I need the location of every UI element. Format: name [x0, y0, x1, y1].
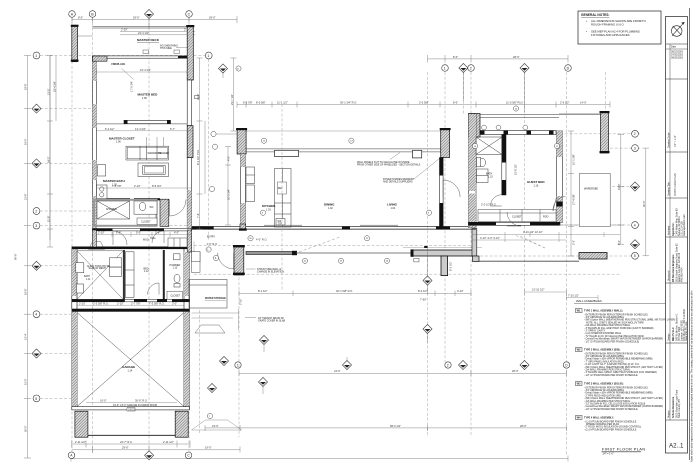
svg-text:8'-1 1/2" PLN: 8'-1 1/2" PLN — [196, 150, 200, 165]
svg-text:2: 2 — [447, 363, 449, 367]
svg-text:Date: Date — [671, 46, 677, 49]
svg-text:10'-1 3/8": 10'-1 3/8" — [572, 154, 576, 165]
svg-text:18'-6": 18'-6" — [24, 83, 28, 90]
svg-text:6'-0": 6'-0" — [116, 231, 121, 235]
svg-text:4'-0": 4'-0" — [174, 231, 179, 235]
north window band — [246, 149, 441, 152]
tag circle near grid1 — [236, 66, 241, 71]
grid bubbles top: A B diamond C — [69, 11, 193, 18]
mud cubbies — [168, 238, 187, 247]
south terrace wall west of entry — [246, 251, 411, 255]
structural diamond top — [144, 9, 153, 28]
svg-text:DRAWER: DRAWER — [159, 152, 170, 155]
guest wing bottom dim lines — [472, 232, 620, 242]
wall type W4 note — [576, 416, 642, 432]
drawing scale section — [666, 79, 688, 152]
svg-text:MASTER BATH: MASTER BATH — [103, 179, 125, 183]
garage floor X — [77, 313, 184, 407]
dashed roofline diagonal — [520, 236, 545, 248]
west master wing inner vertical dims — [47, 56, 56, 248]
right vertical dim lines — [618, 135, 650, 256]
guest shower — [476, 137, 502, 155]
svg-text:•: • — [586, 19, 587, 23]
svg-text:3'-0": 3'-0" — [172, 302, 177, 306]
garage north wall — [72, 309, 190, 312]
window tag boxes on north wall — [143, 50, 180, 53]
bed door arc — [148, 283, 160, 295]
garage east wall — [184, 247, 190, 409]
window seat box kitchen — [275, 150, 299, 156]
right grid bubbles column — [632, 130, 639, 259]
wardrobe box — [579, 174, 610, 227]
svg-text:W4: W4 — [577, 416, 581, 420]
svg-text:Drawing Scale: Drawing Scale — [667, 132, 670, 148]
structure wall pier entry — [233, 245, 245, 275]
roof valley dashed diagonal — [299, 237, 340, 252]
diamond leader tick on porch wall — [424, 246, 427, 248]
closet island dresser — [138, 163, 169, 177]
left structural diamonds — [32, 104, 41, 358]
svg-text:CLOSET: CLOSET — [141, 221, 151, 224]
svg-text:www.MEI-YU.com: www.MEI-YU.com — [685, 322, 688, 341]
svg-text:FIXTURES AND APPLIANCES: FIXTURES AND APPLIANCES — [591, 33, 630, 37]
svg-text:21'-0": 21'-0" — [196, 93, 200, 100]
svg-text:2'-0 1/2" R.O.: 2'-0 1/2" R.O. — [481, 203, 497, 207]
master wc closet — [137, 218, 157, 225]
svg-text:MASTER BED: MASTER BED — [138, 93, 159, 97]
svg-text:CLOSET: CLOSET — [512, 216, 522, 219]
entry hall east wall — [440, 158, 444, 230]
title block outer frame — [666, 8, 690, 460]
master bath wall — [107, 198, 161, 200]
top-right structural diamonds — [459, 63, 529, 112]
svg-text:8'-0 1/2": 8'-0 1/2" — [418, 289, 428, 293]
closet right — [167, 291, 182, 299]
living south wall with sliders — [192, 224, 476, 231]
roof overhang line north — [237, 130, 450, 132]
svg-text:8'-0": 8'-0" — [453, 100, 458, 104]
master wing east wall — [187, 80, 193, 230]
architect block: Agentis Inc. — [666, 198, 688, 237]
svg-text:2'-7 7/8": 2'-7 7/8" — [131, 302, 141, 306]
closet rod section lines — [147, 137, 164, 146]
svg-text:1: 1 — [207, 54, 209, 58]
guest vanity — [477, 169, 489, 183]
mudroom exterior steps — [89, 242, 105, 250]
guest south wall — [469, 222, 561, 225]
bath 1.11 fixtures — [76, 263, 84, 293]
deck edge lines east — [559, 114, 621, 226]
left grid bubbles — [33, 52, 40, 402]
svg-text:TYPE 4 WALL ASSEMBLY:: TYPE 4 WALL ASSEMBLY: — [584, 417, 614, 420]
svg-text:TYPE 1 WALL ASSEMBLY (WALL):: TYPE 1 WALL ASSEMBLY (WALL): — [584, 310, 623, 313]
svg-text:7'-5 7/8": 7'-5 7/8" — [112, 184, 122, 188]
svg-text:19'-0": 19'-0" — [24, 138, 28, 145]
svg-text:Structural: Structural — [667, 270, 670, 281]
svg-text:1.12: 1.12 — [144, 270, 149, 273]
wall type W3 note — [576, 382, 664, 411]
mudroom south wall of master wing — [93, 229, 192, 231]
svg-text:21'-10 1/2": 21'-10 1/2" — [532, 288, 544, 292]
svg-text:28'-6": 28'-6" — [520, 424, 527, 428]
svg-text:W1: W1 — [577, 309, 581, 313]
master bath dim row — [96, 187, 191, 189]
wall assemblies header — [574, 299, 665, 304]
svg-text:Project: Project — [667, 410, 670, 418]
top-left dimension string — [72, 16, 237, 35]
upper mid dimension string y=104 — [237, 102, 610, 108]
window tag circles — [248, 106, 560, 241]
svg-text:40'-0": 40'-0" — [642, 200, 646, 207]
hall door arc — [443, 180, 460, 197]
svg-text:GENERAL NOTES:: GENERAL NOTES: — [581, 13, 609, 17]
svg-text:16001: 16001 — [128, 408, 135, 411]
tag circle near living pier — [211, 131, 216, 136]
hall east wall continuation — [187, 230, 192, 252]
dim rows between — [77, 304, 184, 306]
NW corner L pier — [93, 56, 108, 61]
mudroom door arcs — [113, 231, 164, 245]
svg-text:24'-4 1/2": 24'-4 1/2" — [138, 31, 149, 35]
svg-text:15'-0": 15'-0" — [24, 378, 28, 385]
guest bath door arc — [491, 195, 502, 206]
bottom structural diamond — [145, 451, 154, 460]
svg-text:7'-10 1/2": 7'-10 1/2" — [568, 293, 579, 297]
general notes box — [578, 11, 661, 44]
svg-text:2: 2 — [634, 132, 636, 136]
svg-text:GRATE COVER IN SLAB: GRATE COVER IN SLAB — [258, 319, 285, 322]
wall tag box on south wall — [276, 219, 285, 226]
svg-text:2'-0 5/8": 2'-0 5/8" — [419, 100, 429, 104]
kitchen west wall lower — [241, 154, 246, 229]
patio step lines SE of garage — [192, 242, 242, 431]
entry porch pier going south — [441, 256, 448, 276]
guest west wall — [469, 114, 477, 228]
svg-text:17'-0 3/4": 17'-0 3/4" — [130, 81, 134, 92]
guest toilet — [477, 157, 486, 167]
project block: Schone Residence — [666, 343, 688, 420]
wall master deck east pier — [186, 25, 194, 80]
svg-text:MUD: MUD — [143, 238, 149, 241]
svg-text:5: 5 — [35, 397, 37, 401]
east master wing vertical dims — [197, 58, 206, 229]
svg-text:4'-0" R.O.: 4'-0" R.O. — [207, 242, 218, 246]
svg-text:2'-10": 2'-10" — [239, 298, 243, 305]
svg-text:FIRST FLOOR PLAN: FIRST FLOOR PLAN — [674, 173, 677, 196]
svg-text:2: 2 — [470, 66, 472, 70]
svg-text:18'-4 3/4": 18'-4 3/4" — [52, 81, 56, 92]
svg-text:11'-5 5/8" PLN: 11'-5 5/8" PLN — [506, 100, 523, 104]
entry porch wall — [411, 249, 475, 256]
svg-text:A2..1: A2..1 — [669, 443, 684, 450]
svg-text:CHANGE IN ELEVATION: CHANGE IN ELEVATION — [257, 270, 284, 273]
svg-text:FIREPLACE: FIREPLACE — [112, 63, 126, 66]
patio mid bubble row y=365 — [239, 371, 567, 377]
svg-text:1.16: 1.16 — [534, 184, 539, 187]
svg-text:2'-3 5/8" R.O.: 2'-3 5/8" R.O. — [93, 302, 109, 306]
guest NW hatch pier — [469, 114, 481, 138]
porch roof edge line — [403, 247, 482, 249]
bottom dimension strings — [71, 425, 568, 462]
svg-text:44'-0": 44'-0" — [334, 369, 341, 373]
svg-text:- 1/2" GYPSUM BOARD PER FINISH: - 1/2" GYPSUM BOARD PER FINISH SCHEDULE — [584, 408, 638, 411]
svg-text:27'-4 5/8": 27'-4 5/8" — [572, 194, 576, 205]
svg-text:7'-3 5/8" R.O.: 7'-3 5/8" R.O. — [149, 302, 165, 306]
svg-text:- 1/2" GYPSUM BOARD PER FINISH: - 1/2" GYPSUM BOARD PER FINISH (SCHEDULE… — [584, 340, 639, 343]
svg-text:1.04: 1.04 — [391, 207, 396, 210]
svg-text:1.03: 1.03 — [266, 208, 271, 211]
svg-text:90'-6": 90'-6" — [14, 253, 18, 260]
svg-text:AND DETAILS SUPPLIERS: AND DETAILS SUPPLIERS — [383, 180, 413, 183]
hatched terrace bar east — [579, 253, 607, 260]
svg-text:8'-0": 8'-0" — [78, 16, 83, 20]
svg-text:19'-0": 19'-0" — [212, 424, 219, 428]
svg-text:3'-10 1/2" 12'-10": 3'-10 1/2" 12'-10" — [523, 230, 543, 234]
kitchen dashed grid — [281, 104, 283, 290]
svg-text:24'-7" R.O.: 24'-7" R.O. — [120, 440, 133, 444]
svg-text:29'-6": 29'-6" — [133, 16, 140, 20]
master bed inner dim — [96, 70, 187, 75]
svg-text:KITCHEN: KITCHEN — [262, 204, 275, 208]
svg-text:Drawing Title: Drawing Title — [667, 182, 670, 196]
svg-text:2'-11 1/2": 2'-11 1/2" — [163, 440, 174, 444]
hall dim row — [96, 232, 191, 237]
svg-text:REF: REF — [278, 187, 283, 190]
garage block north wall — [72, 247, 190, 250]
roof dashed diagonal SE — [516, 236, 545, 249]
svg-text:15'-8 1/2": 15'-8 1/2" — [514, 164, 518, 175]
guest west wall south continuation — [472, 229, 477, 257]
master deck north window wall — [93, 27, 188, 29]
svg-text:6'-2 1/2": 6'-2 1/2" — [449, 261, 453, 271]
svg-text:ENTRY: ENTRY — [207, 236, 215, 239]
sliding door leafs — [264, 224, 398, 226]
shower master — [97, 201, 130, 219]
svg-text:W2: W2 — [577, 348, 581, 352]
svg-text:WC: WC — [150, 206, 154, 209]
svg-text:21'-0": 21'-0" — [46, 88, 50, 95]
svg-text:1.13: 1.13 — [173, 267, 178, 270]
svg-text:GUEST BED: GUEST BED — [527, 180, 545, 184]
svg-text:14'-0": 14'-0" — [580, 100, 587, 104]
svg-text:4: 4 — [634, 223, 636, 227]
svg-text:1.06: 1.06 — [116, 141, 121, 144]
interior wall bed/powder — [163, 250, 165, 301]
scattered structural diamonds patio — [207, 276, 432, 394]
north arrow compass logo — [671, 22, 684, 36]
svg-text:11'-1 1/2": 11'-1 1/2" — [277, 100, 288, 104]
vertical dim east of master wing — [231, 58, 237, 131]
grid 1 right-end bubble — [205, 52, 212, 59]
rooms south wall — [72, 299, 190, 302]
svg-text:2'-10": 2'-10" — [117, 302, 124, 306]
svg-text:4'-0" R.O.: 4'-0" R.O. — [256, 238, 267, 242]
svg-text:1.11: 1.11 — [86, 278, 91, 281]
patio dim line y=293 — [239, 291, 471, 297]
svg-text:ROD: ROD — [543, 216, 549, 219]
svg-text:28'-6": 28'-6" — [512, 369, 519, 373]
svg-text:1.15: 1.15 — [488, 175, 493, 178]
svg-text:30'-1 3/4" R.O.: 30'-1 3/4" R.O. — [340, 100, 357, 104]
right structural diamonds — [630, 182, 639, 249]
left dimension strings — [24, 56, 50, 459]
master bed north wall — [93, 56, 188, 58]
svg-text:23'-7 1/2": 23'-7 1/2" — [230, 94, 234, 105]
svg-text:TYPE 2 WALL ASSEMBLY (SIB):: TYPE 2 WALL ASSEMBLY (SIB): — [584, 349, 620, 352]
svg-text:1/4" = 1'-0": 1/4" = 1'-0" — [603, 454, 614, 456]
svg-text:2'-10": 2'-10" — [134, 184, 141, 188]
master bath tiled border — [94, 200, 157, 226]
svg-text:3: 3 — [634, 147, 636, 151]
svg-text:CLOSET: CLOSET — [171, 294, 181, 297]
svg-text:2'-10": 2'-10" — [79, 302, 86, 306]
svg-text:8'-0 5/8": 8'-0 5/8" — [256, 100, 266, 104]
svg-text:16'-0" x 8'-0" GARAGE IN-SWING: 16'-0" x 8'-0" GARAGE IN-SWING DOOR — [113, 404, 157, 407]
gallery tag circles — [212, 144, 217, 149]
hall west wall continuation — [93, 230, 97, 247]
svg-text:4: 4 — [35, 313, 37, 317]
svg-text:THIS SIDE: THIS SIDE — [160, 47, 172, 50]
NE deck pier — [600, 111, 610, 153]
svg-text:6'-2 1/2": 6'-2 1/2" — [105, 127, 115, 131]
NW corner pier living — [236, 128, 247, 154]
svg-text:1.08: 1.08 — [142, 97, 147, 100]
terrace wall step at guest wing — [473, 256, 580, 262]
patio tag circles — [207, 258, 389, 418]
svg-text:09/25/2015: 09/25/2015 — [671, 57, 684, 60]
master wing west wall — [93, 56, 97, 230]
svg-text:19'-0": 19'-0" — [205, 446, 212, 450]
svg-text:480.983.4424: 480.983.4424 — [681, 267, 684, 282]
svg-text:8'-0": 8'-0" — [453, 55, 458, 59]
svg-text:- (1) GYPSUM BOARD PER FINISH: - (1) GYPSUM BOARD PER FINISH SCHEDULE — [584, 428, 637, 431]
entry cabinet box — [413, 150, 422, 158]
svg-text:Notes shall not be reproduced: Notes shall not be reproduced by any oth… — [690, 290, 693, 462]
svg-text:1.14: 1.14 — [128, 370, 133, 373]
svg-text:13'-4": 13'-4" — [24, 333, 28, 340]
bath door arc — [170, 200, 187, 217]
svg-text:1/4" = 1'-0": 1/4" = 1'-0" — [674, 135, 677, 147]
svg-text:SHOWER: SHOWER — [106, 208, 117, 211]
svg-text:ROUGH FRAMING U.N.O: ROUGH FRAMING U.N.O — [591, 23, 624, 27]
svg-text:2'-11 1/2": 2'-11 1/2" — [75, 440, 86, 444]
drawing title section — [666, 152, 688, 198]
master vanity sinks — [97, 185, 108, 199]
wall grid-A privacy pier — [71, 25, 93, 62]
svg-text:2: 2 — [35, 209, 37, 213]
wall type W1 note — [576, 309, 676, 344]
svg-text:D: D — [567, 66, 570, 70]
diamond near grid1 east — [218, 64, 227, 78]
NE corner pier entry — [440, 128, 451, 158]
kitchen island galley — [275, 169, 292, 228]
svg-text:21'-6": 21'-6" — [24, 193, 28, 200]
svg-text:Architect: Architect — [667, 225, 670, 235]
svg-text:28'-0": 28'-0" — [513, 55, 520, 59]
clerestory tag circles — [482, 125, 528, 130]
svg-text:1: 1 — [237, 363, 239, 367]
svg-text:4'-10" 4'-0" 3'-10": 4'-10" 4'-0" 3'-10" — [480, 236, 500, 240]
svg-text:30'-6" R.O.: 30'-6" R.O. — [135, 398, 148, 402]
washer dryer — [110, 258, 122, 277]
wall type W2 note — [576, 348, 664, 377]
svg-text:MASTER DECK: MASTER DECK — [137, 38, 160, 42]
svg-text:Design: Design — [667, 333, 670, 341]
cabinet strip — [125, 252, 134, 297]
structural block: RS Structural Engineers — [666, 237, 688, 283]
svg-text:2'-10": 2'-10" — [121, 28, 128, 32]
bath 1.11 tile X — [77, 251, 123, 299]
garage west wall — [72, 247, 77, 409]
deck vertical dim — [568, 131, 574, 256]
guest bath wall — [502, 135, 506, 196]
extra dashed verticals patio — [238, 263, 240, 437]
garage south wall + door — [72, 407, 190, 438]
svg-text:5: 5 — [634, 254, 636, 258]
svg-text:SLAB W/ MECH: SLAB W/ MECH — [89, 267, 107, 270]
svg-text:29'-6": 29'-6" — [122, 446, 129, 450]
svg-text:8'-5 3/4": 8'-5 3/4" — [152, 184, 162, 188]
svg-text:16'-6": 16'-6" — [24, 288, 28, 295]
guest clerestory north edge — [468, 115, 603, 118]
svg-text:C: C — [188, 12, 191, 16]
svg-text:20'-0": 20'-0" — [24, 425, 28, 432]
svg-text:6'-3 7/8": 6'-3 7/8" — [243, 100, 253, 104]
dashed structural grid lines horizontal — [40, 56, 640, 399]
svg-text:1: 1 — [35, 54, 37, 58]
svg-text:W3: W3 — [577, 382, 581, 386]
svg-text:16'-4 3/4": 16'-4 3/4" — [140, 68, 151, 72]
guest closet row — [478, 210, 556, 222]
svg-text:14'-4 3/4": 14'-4 3/4" — [135, 127, 146, 131]
kitchen tall cabinets — [246, 167, 255, 202]
svg-text:- 1/2" GYPSUM BOARD PER FINISH: - 1/2" GYPSUM BOARD PER FINISH SCHEDULE — [584, 374, 638, 377]
west wall cabinet — [98, 165, 106, 176]
svg-text:24'-2": 24'-2" — [46, 156, 50, 163]
svg-text:19'-0": 19'-0" — [617, 183, 621, 190]
svg-text:11'-8": 11'-8" — [46, 216, 50, 222]
svg-text:•: • — [586, 30, 587, 34]
svg-text:4'-0": 4'-0" — [227, 156, 231, 161]
svg-text:DINING: DINING — [324, 203, 335, 207]
svg-text:1.02: 1.02 — [328, 207, 333, 210]
svg-text:LIVING: LIVING — [387, 203, 398, 207]
svg-text:3'-10": 3'-10" — [457, 289, 464, 293]
svg-text:www.agentisinc.com: www.agentisinc.com — [683, 214, 686, 236]
bottom grid bubbles — [68, 452, 192, 459]
svg-text:29'-6": 29'-6" — [209, 16, 216, 20]
svg-text:8'-1 1/2": 8'-1 1/2" — [258, 289, 268, 293]
svg-text:7'-50": 7'-50" — [420, 298, 427, 302]
plan title — [602, 447, 646, 456]
svg-text:GARAGE: GARAGE — [122, 365, 135, 369]
closet cells south of mudroom — [192, 252, 201, 273]
gallery vertical dim — [225, 147, 231, 225]
upper terrace dim texts — [525, 290, 599, 301]
svg-text:WATER STORAGE: WATER STORAGE — [205, 297, 226, 300]
master bed dim row — [96, 130, 192, 132]
svg-text:1: 1 — [444, 66, 446, 70]
entry south door arc — [218, 253, 234, 269]
svg-text:5'-0": 5'-0" — [155, 231, 160, 235]
svg-text:8'-0": 8'-0" — [617, 240, 621, 245]
guest east wall — [557, 131, 563, 223]
porch tag box — [414, 259, 419, 262]
svg-text:5'-7": 5'-7" — [170, 127, 175, 131]
svg-text:2'-10": 2'-10" — [98, 231, 105, 235]
svg-text:MASTER CLOSET: MASTER CLOSET — [109, 137, 135, 141]
date section — [666, 44, 688, 79]
